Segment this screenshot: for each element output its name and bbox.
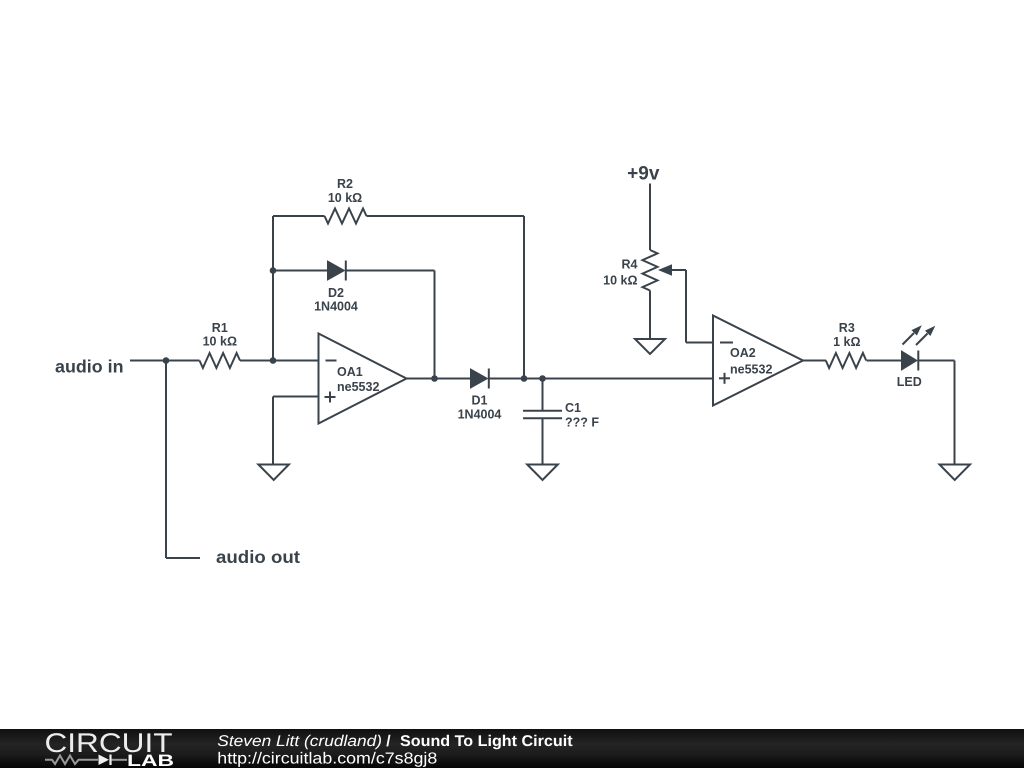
logo resistor squiggle xyxy=(45,755,98,764)
resistor R2 xyxy=(325,209,367,224)
svg-text:audio in: audio in xyxy=(55,357,124,377)
wire R4 wiper to OA2 minus input xyxy=(685,270,687,343)
wire C1 top lead xyxy=(542,379,544,411)
footer credit line xyxy=(217,732,572,749)
junction C1 tap xyxy=(539,375,546,382)
junction D2 left xyxy=(270,267,277,274)
diode D1 xyxy=(471,369,489,389)
op-amp OA1 xyxy=(319,334,407,424)
svg-text:D1: D1 xyxy=(472,393,488,407)
svg-text:Steven Litt (crudland): Steven Litt (crudland) xyxy=(217,732,382,749)
svg-text:R2: R2 xyxy=(337,177,353,191)
wire R2 left segment xyxy=(273,215,325,217)
label R3 value xyxy=(833,321,860,349)
svg-text:OA1: OA1 xyxy=(337,365,363,379)
potentiometer R4 xyxy=(643,250,687,291)
svg-text:R4: R4 xyxy=(622,258,638,272)
svg-text:1N4004: 1N4004 xyxy=(314,300,358,314)
wire R1 to OA1 minus input xyxy=(240,360,319,362)
svg-text:ne5532: ne5532 xyxy=(337,380,379,394)
label R2 value xyxy=(328,177,362,205)
wire R3 to LED xyxy=(867,360,902,362)
svg-text:+9v: +9v xyxy=(627,164,660,185)
svg-text:Sound To Light Circuit: Sound To Light Circuit xyxy=(400,732,573,749)
diode LED xyxy=(902,325,936,370)
wire R4 bottom to ground xyxy=(649,291,651,340)
svg-text:audio out: audio out xyxy=(216,547,300,567)
svg-text:LAB: LAB xyxy=(127,752,174,769)
wire LED cathode to ground xyxy=(918,360,954,362)
diode D2 xyxy=(328,261,346,281)
svg-text:http://circuitlab.com/c7s8gj8: http://circuitlab.com/c7s8gj8 xyxy=(217,750,437,767)
junction R2 return xyxy=(521,375,528,382)
svg-text:C1: C1 xyxy=(565,401,581,415)
svg-text:??? F: ??? F xyxy=(565,416,599,430)
label D1 value xyxy=(458,393,502,421)
resistor R1 xyxy=(200,353,241,368)
label D2 value xyxy=(314,286,358,314)
wire OA2 output to R3 xyxy=(803,360,826,362)
wire R2 right segment xyxy=(367,215,525,217)
svg-text:OA2: OA2 xyxy=(730,346,756,360)
svg-text:ne5532: ne5532 xyxy=(730,362,772,376)
svg-text:1 kΩ: 1 kΩ xyxy=(833,335,860,349)
label R1 value xyxy=(203,321,237,349)
ground R4 xyxy=(635,339,665,354)
wire +9v to R4 xyxy=(649,184,651,251)
ground C1 xyxy=(527,465,558,480)
label OA2 name xyxy=(730,346,772,376)
svg-text:R3: R3 xyxy=(839,321,855,335)
wire OA1 plus input xyxy=(273,396,319,398)
svg-text:1N4004: 1N4004 xyxy=(458,408,502,422)
capacitor C1 xyxy=(523,411,562,418)
op-amp OA2 xyxy=(713,316,803,406)
wire R2 return vertical xyxy=(523,216,525,379)
svg-text:R1: R1 xyxy=(212,321,228,335)
resistor R3 xyxy=(826,353,866,368)
wire D1 cathode to OA2 plus input xyxy=(490,378,714,380)
label C1 value xyxy=(565,401,599,429)
junction minus-node xyxy=(270,357,277,364)
svg-text:10 kΩ: 10 kΩ xyxy=(603,274,637,288)
junction OA1 output / D2 return xyxy=(431,375,438,382)
wire audio in to R1 xyxy=(130,360,200,362)
ground OA1 plus xyxy=(258,465,289,480)
wire D2 anode segment xyxy=(273,270,328,272)
wire OA1 output xyxy=(407,378,471,380)
junction audio-in/audio-out tap xyxy=(163,357,170,364)
svg-text:10 kΩ: 10 kΩ xyxy=(328,191,362,205)
ground LED xyxy=(940,465,971,480)
label OA1 name xyxy=(337,365,379,394)
wire minus-node up to R2/D2 xyxy=(272,216,274,361)
svg-text:D2: D2 xyxy=(328,286,344,300)
svg-text:/: / xyxy=(386,732,391,749)
wire audio-out vertical xyxy=(165,361,167,559)
svg-text:LED: LED xyxy=(897,375,922,389)
label R4 value xyxy=(603,258,637,288)
wire C1 bottom lead xyxy=(542,418,544,464)
wire D2 return vertical xyxy=(434,271,436,379)
logo diode xyxy=(99,754,110,765)
wire D2 cathode segment xyxy=(347,270,435,272)
svg-text:10 kΩ: 10 kΩ xyxy=(203,335,237,349)
